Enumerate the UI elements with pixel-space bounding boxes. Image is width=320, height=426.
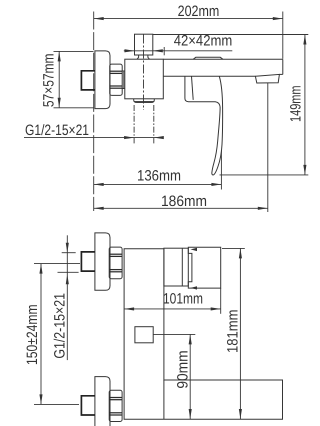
42 arrows bbox=[125, 49, 135, 52]
lever knob plan bbox=[188, 247, 220, 288]
dimension 90 line bbox=[189, 334, 191, 419]
57 arrows bbox=[58, 51, 61, 61]
dimension 150 top extension bbox=[34, 263, 80, 265]
svg-text:149mm: 149mm bbox=[287, 85, 304, 122]
faucet body side view bbox=[125, 59, 164, 99]
wall dashed line bbox=[93, 12, 95, 212]
G1/2 tick lower bbox=[58, 271, 79, 273]
aerator bbox=[255, 74, 279, 83]
center line vertical bbox=[143, 35, 145, 111]
dimension 57x57 top extension bbox=[54, 50, 94, 52]
dimension 149 line bbox=[304, 35, 306, 175]
escutcheon upper plan bbox=[95, 233, 110, 290]
escutcheon lower plan bbox=[95, 377, 110, 426]
pipe stub bbox=[122, 71, 125, 89]
dimension 136 line bbox=[94, 183, 222, 185]
svg-text:181mm: 181mm bbox=[224, 309, 241, 353]
149 arrows bbox=[303, 35, 306, 45]
svg-text:G1/2-15×21: G1/2-15×21 bbox=[51, 293, 68, 359]
dimension G1/2 line top view bbox=[24, 137, 163, 139]
150 arrows bbox=[39, 264, 42, 274]
lever neck and shelf bbox=[185, 76, 220, 107]
svg-text:136mm: 136mm bbox=[137, 168, 181, 185]
svg-text:42×42mm: 42×42mm bbox=[174, 33, 233, 50]
hex nut upper bbox=[109, 247, 122, 279]
dimension 57x57 bottom extension bbox=[54, 107, 94, 109]
dimension 186 line bbox=[94, 207, 268, 209]
spout top bump bbox=[193, 57, 223, 59]
tick at body edge bbox=[163, 47, 165, 55]
dimension 150 line bbox=[40, 264, 42, 405]
spout right end bbox=[282, 59, 284, 74]
hex nut side view bbox=[110, 64, 123, 95]
dimension 181 top extension bbox=[222, 247, 245, 249]
G1/2 extension right bbox=[153, 105, 155, 144]
lever blade bbox=[212, 76, 223, 175]
101 arrows bbox=[124, 307, 134, 310]
dimension 186 right extension bbox=[267, 83, 269, 212]
202 arrows bbox=[94, 17, 104, 20]
G1/2 extension left bbox=[133, 105, 135, 144]
dimension 150 bottom extension bbox=[34, 403, 79, 405]
G1/2 top view arrows bbox=[124, 136, 134, 139]
svg-text:G1/2-15×21: G1/2-15×21 bbox=[25, 122, 89, 139]
handle knob side view bbox=[135, 34, 153, 55]
dimension 181 line bbox=[239, 248, 241, 419]
escutcheon side view bbox=[95, 51, 110, 109]
svg-text:57×57mm: 57×57mm bbox=[41, 53, 58, 107]
arrowheads bbox=[39, 17, 306, 419]
G1/2 tick upper bbox=[62, 252, 76, 254]
svg-text:90mm: 90mm bbox=[174, 350, 191, 388]
dimension 202mm line bbox=[94, 18, 283, 20]
hex nut lower bbox=[109, 390, 122, 421]
90 arrows bbox=[189, 334, 192, 344]
dimension 101 line bbox=[124, 308, 221, 310]
svg-text:150±24mm: 150±24mm bbox=[24, 304, 41, 365]
dimension 90 extension bbox=[153, 333, 195, 335]
dimension 42x42 line bbox=[124, 50, 233, 52]
connector block side view (bold) bbox=[81, 71, 95, 90]
dimension 149 bottom extension bbox=[220, 174, 309, 176]
dimension 149 top extension bbox=[153, 34, 308, 36]
G1/2 bottom view arrows bbox=[66, 243, 69, 253]
spout bottom edge bbox=[163, 75, 255, 77]
svg-text:202mm: 202mm bbox=[178, 3, 220, 20]
connector block lower (bold) bbox=[81, 396, 95, 415]
connector block upper (bold) bbox=[81, 252, 95, 271]
lever detail line bbox=[192, 76, 194, 100]
svg-text:186mm: 186mm bbox=[161, 193, 207, 210]
knob neck right bbox=[148, 55, 150, 59]
181 arrows bbox=[239, 248, 242, 258]
knob neck left bbox=[137, 55, 139, 59]
lever knob arrow marks bbox=[191, 248, 198, 251]
spout top edge bbox=[163, 58, 282, 60]
dimension 57x57 line bbox=[58, 51, 60, 107]
cartridge rect plan bbox=[164, 248, 188, 286]
136 arrows bbox=[94, 183, 104, 186]
handle square plan bbox=[135, 327, 153, 343]
body interior line lower bbox=[163, 380, 165, 419]
dimension 136 right extension bbox=[220, 150, 222, 190]
dimension 101 right extension bbox=[220, 288, 222, 314]
body outline plan bbox=[124, 249, 282, 419]
G1/2 dim line bottom view bbox=[66, 235, 68, 360]
inlet nub bbox=[134, 99, 155, 103]
svg-text:101mm: 101mm bbox=[163, 291, 203, 308]
dimension 202mm right extension bbox=[282, 12, 284, 59]
186 arrows bbox=[94, 207, 104, 210]
